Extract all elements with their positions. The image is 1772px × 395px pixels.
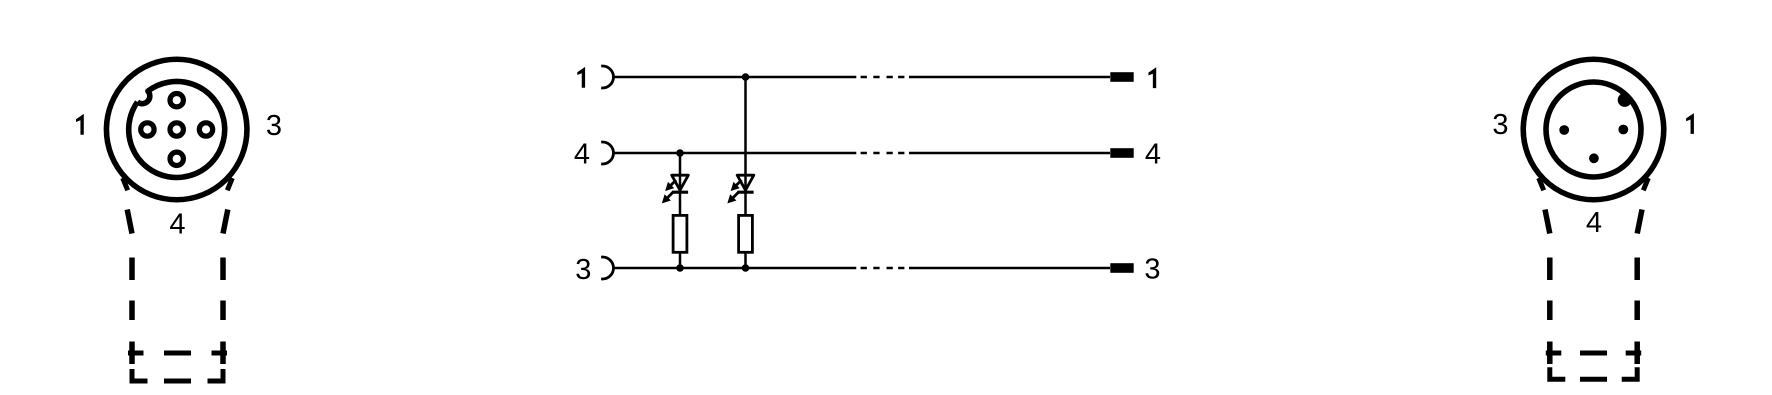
wire 1 cable-break dashes xyxy=(861,76,905,79)
socket terminal arc, wire 4 xyxy=(601,142,613,164)
connector B keying dot (on ring, NE) xyxy=(1618,93,1632,107)
connector A body dashed left side xyxy=(127,210,132,365)
wire 1 left segment xyxy=(614,76,857,79)
connector B contact pin E (1) xyxy=(1618,125,1628,135)
LED of branch B1 (LED D1 + resistor R1): emission arrow 2 xyxy=(667,192,673,198)
svg-text:3: 3 xyxy=(1144,254,1160,286)
resistor of branch B1 (LED D1 + resistor R1) xyxy=(673,215,687,252)
connector B body dashed right side xyxy=(1637,210,1642,365)
LED of branch B1 (LED D1 + resistor R1): cathode bar xyxy=(672,191,688,194)
wire 4 cable-break dashes xyxy=(861,152,905,155)
branch B2 (LED D2 + resistor R2) vertical wire xyxy=(744,77,747,268)
connector A contact hole E (pin 3) xyxy=(199,123,212,136)
connector B pin label 1 xyxy=(1686,113,1694,134)
connector A contact hole N (pin 2) xyxy=(170,94,183,107)
connector A pin label 1 xyxy=(76,114,84,135)
connector A contact hole W (pin 1) xyxy=(141,123,154,136)
right label wire 1 xyxy=(1148,67,1156,88)
wire 1 right segment xyxy=(909,76,1110,79)
svg-text:3: 3 xyxy=(575,254,591,286)
connector A (M12 female) outer circle xyxy=(106,59,247,200)
LED of branch B2 (LED D2 + resistor R2): emission arrow 1 xyxy=(735,180,741,186)
LED of branch B1 (LED D1 + resistor R1): emission arrow 1 xyxy=(670,180,676,186)
svg-text:4: 4 xyxy=(1145,139,1161,171)
wire 4 right segment xyxy=(909,152,1110,155)
connector A body dashed nut top edge xyxy=(128,351,227,356)
wire 1 pin terminal (black pad) xyxy=(1110,72,1133,82)
LED of branch B2 (LED D2 + resistor R2): cathode bar xyxy=(737,191,753,194)
svg-text:3: 3 xyxy=(1492,109,1508,141)
svg-text:3: 3 xyxy=(266,110,282,142)
connector A body right tick xyxy=(227,178,232,190)
svg-text:4: 4 xyxy=(574,139,590,171)
connector B contact pin W (3) xyxy=(1559,125,1569,135)
junction dot top of branch B2 (LED D2 + resistor R2) xyxy=(742,73,750,81)
connector B body right tick xyxy=(1643,178,1648,190)
junction dot bottom of branch B2 (LED D2 + resistor R2) (wire 3) xyxy=(742,264,750,272)
svg-text:4: 4 xyxy=(1586,207,1602,239)
svg-text:4: 4 xyxy=(169,208,185,240)
LED of branch B2 (LED D2 + resistor R2): triangle xyxy=(737,175,754,190)
LED of branch B2 (LED D2 + resistor R2): emission arrow 2 xyxy=(732,192,738,198)
connector B (M12 male) outer circle xyxy=(1523,59,1664,200)
wire 3 cable-break dashes xyxy=(861,267,905,270)
connector A contact hole center (pin 5) xyxy=(170,123,183,136)
connector B inner circle xyxy=(1546,82,1641,177)
branch B1 (LED D1 + resistor R1) vertical wire xyxy=(679,153,682,268)
junction dot top of branch B1 (LED D1 + resistor R1) xyxy=(676,149,684,157)
junction dot bottom of branch B1 (LED D1 + resistor R1) (wire 3) xyxy=(676,264,684,272)
wire 3 left segment xyxy=(614,267,857,270)
connector A body dashed nut bottom edge xyxy=(132,369,223,381)
resistor of branch B2 (LED D2 + resistor R2) xyxy=(739,215,753,252)
connector B body dashed left side xyxy=(1545,210,1550,365)
left label wire 1 xyxy=(577,67,585,88)
connector A body left tick xyxy=(123,178,128,190)
wire 4 pin terminal (black pad) xyxy=(1110,148,1133,158)
wire 4 left segment xyxy=(614,152,857,155)
connector B body dashed nut bottom edge xyxy=(1550,367,1637,379)
connector B body left tick xyxy=(1539,178,1544,190)
LED of branch B1 (LED D1 + resistor R1): triangle xyxy=(672,175,689,190)
socket terminal arc, wire 3 xyxy=(601,257,613,279)
connector B body dashed nut top edge xyxy=(1546,351,1641,356)
connector A inner ring with keying notch xyxy=(129,81,225,177)
wire 3 right segment xyxy=(909,267,1110,270)
connector A body dashed right side xyxy=(223,210,228,365)
connector A contact hole S (pin 4) xyxy=(170,152,183,165)
wire 3 pin terminal (black pad) xyxy=(1110,263,1133,273)
socket terminal arc, wire 1 xyxy=(601,66,613,88)
connector B contact pin S (4) xyxy=(1589,153,1599,163)
